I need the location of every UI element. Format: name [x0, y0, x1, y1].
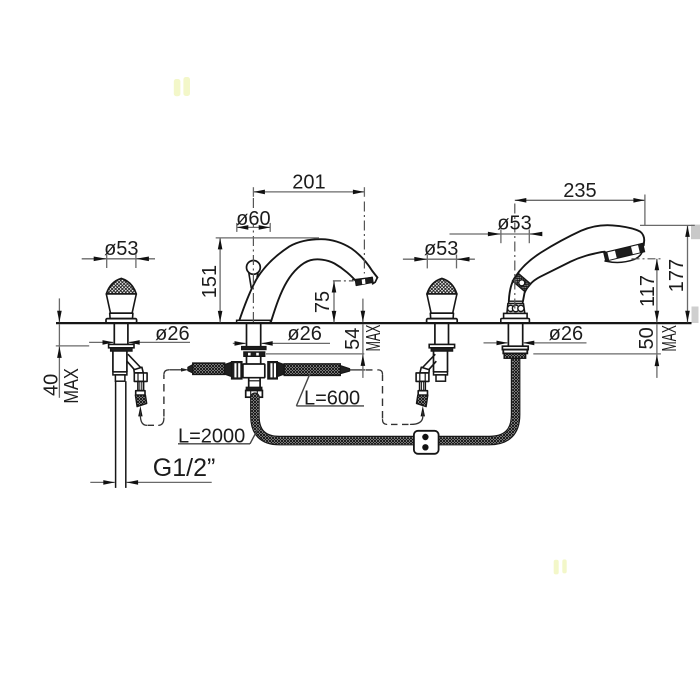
svg-text:177: 177: [666, 259, 688, 292]
svg-text:MAX: MAX: [658, 325, 681, 351]
svg-text:ø60: ø60: [236, 208, 270, 230]
svg-text:201: 201: [292, 172, 325, 194]
svg-text:ø26: ø26: [287, 323, 321, 345]
svg-text:ø53: ø53: [497, 212, 531, 234]
svg-text:ø26: ø26: [549, 323, 583, 345]
svg-text:235: 235: [563, 180, 596, 202]
svg-text:50: 50: [636, 327, 658, 349]
svg-text:ø53: ø53: [424, 238, 458, 260]
svg-text:151: 151: [199, 265, 221, 298]
svg-text:MAX: MAX: [362, 325, 385, 352]
svg-text:ø26: ø26: [155, 323, 189, 345]
svg-text:MAX: MAX: [59, 368, 82, 404]
svg-text:ø53: ø53: [104, 238, 138, 260]
svg-text:75: 75: [312, 291, 334, 313]
svg-text:G1/2”: G1/2”: [153, 454, 216, 482]
svg-text:117: 117: [637, 275, 659, 307]
svg-text:54: 54: [342, 328, 364, 350]
